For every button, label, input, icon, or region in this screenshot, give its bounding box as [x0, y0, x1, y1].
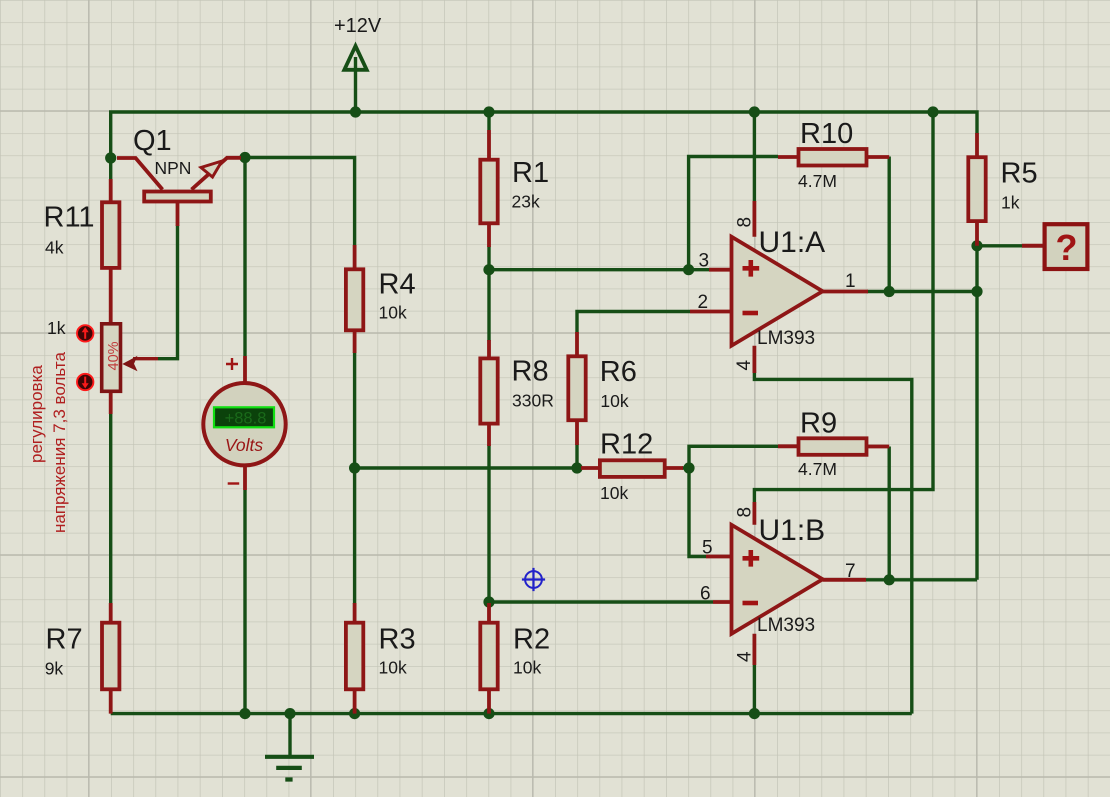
question mark probe box [1022, 224, 1087, 269]
svg-text:LM393: LM393 [757, 328, 815, 349]
wire R9 right drop to output 7 [888, 447, 891, 580]
svg-text:1: 1 [845, 271, 856, 292]
node ground rail junctions [239, 708, 250, 719]
resistor R3 [346, 603, 363, 714]
power +12V symbol [344, 46, 366, 70]
wire U1:B pin4 to rail [753, 665, 756, 714]
svg-text:4k: 4k [45, 238, 64, 258]
wire +12V stem [354, 57, 357, 112]
wire Q1 base to pot wiper [158, 225, 178, 359]
svg-text:NPN: NPN [155, 158, 192, 178]
node pin6 junction [483, 596, 494, 607]
svg-text:?: ? [1056, 227, 1078, 268]
svg-text:10k: 10k [600, 391, 628, 411]
svg-text:R5: R5 [1001, 158, 1038, 190]
svg-text:R3: R3 [379, 624, 416, 656]
svg-text:4: 4 [734, 360, 755, 371]
node output7 junction [884, 574, 895, 585]
wire R12 to pin5 [682, 468, 706, 557]
wire emitter node to R4 [245, 158, 355, 246]
wire R9 left link [689, 446, 778, 468]
resistor R2 [480, 603, 497, 714]
svg-text:1k: 1k [1001, 193, 1020, 213]
wire node A collector to R11 [109, 158, 112, 179]
svg-text:5: 5 [702, 538, 713, 559]
wire top +12V rail [111, 112, 977, 158]
ground [265, 757, 314, 780]
svg-text:+88.8: +88.8 [225, 409, 267, 427]
svg-text:10k: 10k [379, 303, 407, 323]
svg-text:6: 6 [700, 584, 711, 605]
wire R1 top link [487, 112, 490, 130]
wire R8 bottom to R2 [487, 445, 490, 604]
wire node R12 row left [355, 466, 581, 469]
wire U1:A pin4 to ground rail [754, 370, 911, 714]
pot decrement button [77, 374, 93, 390]
wire pin2 row to R6 top [577, 312, 690, 334]
svg-text:R2: R2 [513, 624, 550, 656]
svg-text:R1: R1 [512, 157, 549, 189]
wire R10 right drop to output 1 [888, 157, 891, 292]
wire emitter node to voltmeter [243, 158, 246, 357]
resistor R4 [346, 245, 363, 353]
svg-text:U1:B: U1:B [759, 514, 826, 547]
wire output7 row [866, 578, 977, 581]
node R12 row junctions [349, 462, 360, 473]
svg-text:7: 7 [845, 561, 856, 582]
wire R10 left to pin3 node [689, 157, 778, 270]
node Q1 collector junction [105, 152, 116, 163]
svg-text:40%: 40% [106, 341, 122, 370]
resistor R9 [778, 438, 889, 455]
svg-text:23k: 23k [512, 192, 540, 212]
svg-text:R6: R6 [600, 356, 637, 388]
node pin3 junctions [483, 264, 494, 275]
resistor R6 [568, 332, 585, 445]
pot increment button [77, 325, 93, 341]
svg-text:R4: R4 [379, 269, 416, 301]
svg-text:LM393: LM393 [757, 615, 815, 636]
op-amp U1:B [706, 502, 866, 665]
svg-text:R12: R12 [600, 429, 653, 461]
wire rail to U1:B pin8 [754, 112, 933, 502]
svg-text:9k: 9k [45, 659, 64, 679]
op-amp U1:A [690, 201, 868, 373]
svg-text:10k: 10k [379, 658, 407, 678]
svg-text:R11: R11 [44, 202, 95, 234]
potentiometer RV1 1k 40% [102, 324, 158, 414]
svg-text:8: 8 [735, 217, 756, 228]
wire R6 bottom drop [575, 444, 578, 468]
wire ground stub [288, 714, 291, 757]
svg-text:+12V: +12V [334, 15, 382, 37]
svg-text:8: 8 [735, 507, 756, 518]
svg-text:3: 3 [699, 251, 710, 272]
wire R1 R8 node [487, 246, 490, 341]
resistor R8 [480, 340, 497, 446]
node Q1 emitter junction [239, 152, 250, 163]
svg-text:R10: R10 [800, 118, 853, 150]
marker blue crosshair [522, 568, 545, 591]
svg-text:4.7M: 4.7M [798, 459, 837, 479]
svg-text:4.7M: 4.7M [798, 171, 837, 191]
svg-text:регулировка: регулировка [27, 365, 46, 463]
wire outputs tie vertical [975, 246, 978, 580]
svg-text:10k: 10k [600, 483, 628, 503]
svg-text:R9: R9 [800, 408, 837, 440]
svg-text:R8: R8 [512, 356, 549, 388]
wire node pin6 row [489, 600, 713, 603]
svg-text:Q1: Q1 [133, 125, 172, 157]
wire node pin3 row [489, 268, 710, 271]
wire bottom ground rail [111, 712, 912, 715]
svg-text:10k: 10k [513, 658, 541, 678]
svg-text:Volts: Volts [225, 435, 264, 455]
wire R5 bottom to question box [977, 244, 1022, 247]
node output1 junctions [884, 286, 895, 297]
svg-text:330R: 330R [512, 391, 554, 411]
svg-text:4: 4 [735, 651, 756, 662]
svg-text:2: 2 [698, 292, 709, 313]
wire U1:A pin8 to rail [753, 112, 756, 202]
transistor Q1 [117, 158, 241, 226]
svg-text:напряжения 7,3 вольта: напряжения 7,3 вольта [50, 352, 69, 533]
node junction dots top rail [350, 106, 361, 117]
wire output1 row [867, 290, 977, 293]
resistor R1 [480, 130, 497, 247]
svg-text:R7: R7 [46, 624, 83, 656]
resistor R10 [778, 149, 889, 166]
wire voltmeter minus to rail [243, 490, 246, 714]
svg-text:U1:A: U1:A [759, 226, 826, 259]
svg-text:1k: 1k [47, 318, 66, 338]
resistor R12 [581, 460, 683, 477]
wire R4 bottom to R3 [353, 352, 356, 604]
resistor R5 [968, 133, 985, 246]
resistor R7 [102, 603, 119, 714]
wire pot bottom to R7 [109, 414, 112, 604]
voltmeter [203, 356, 285, 490]
resistor R11 [102, 179, 119, 323]
